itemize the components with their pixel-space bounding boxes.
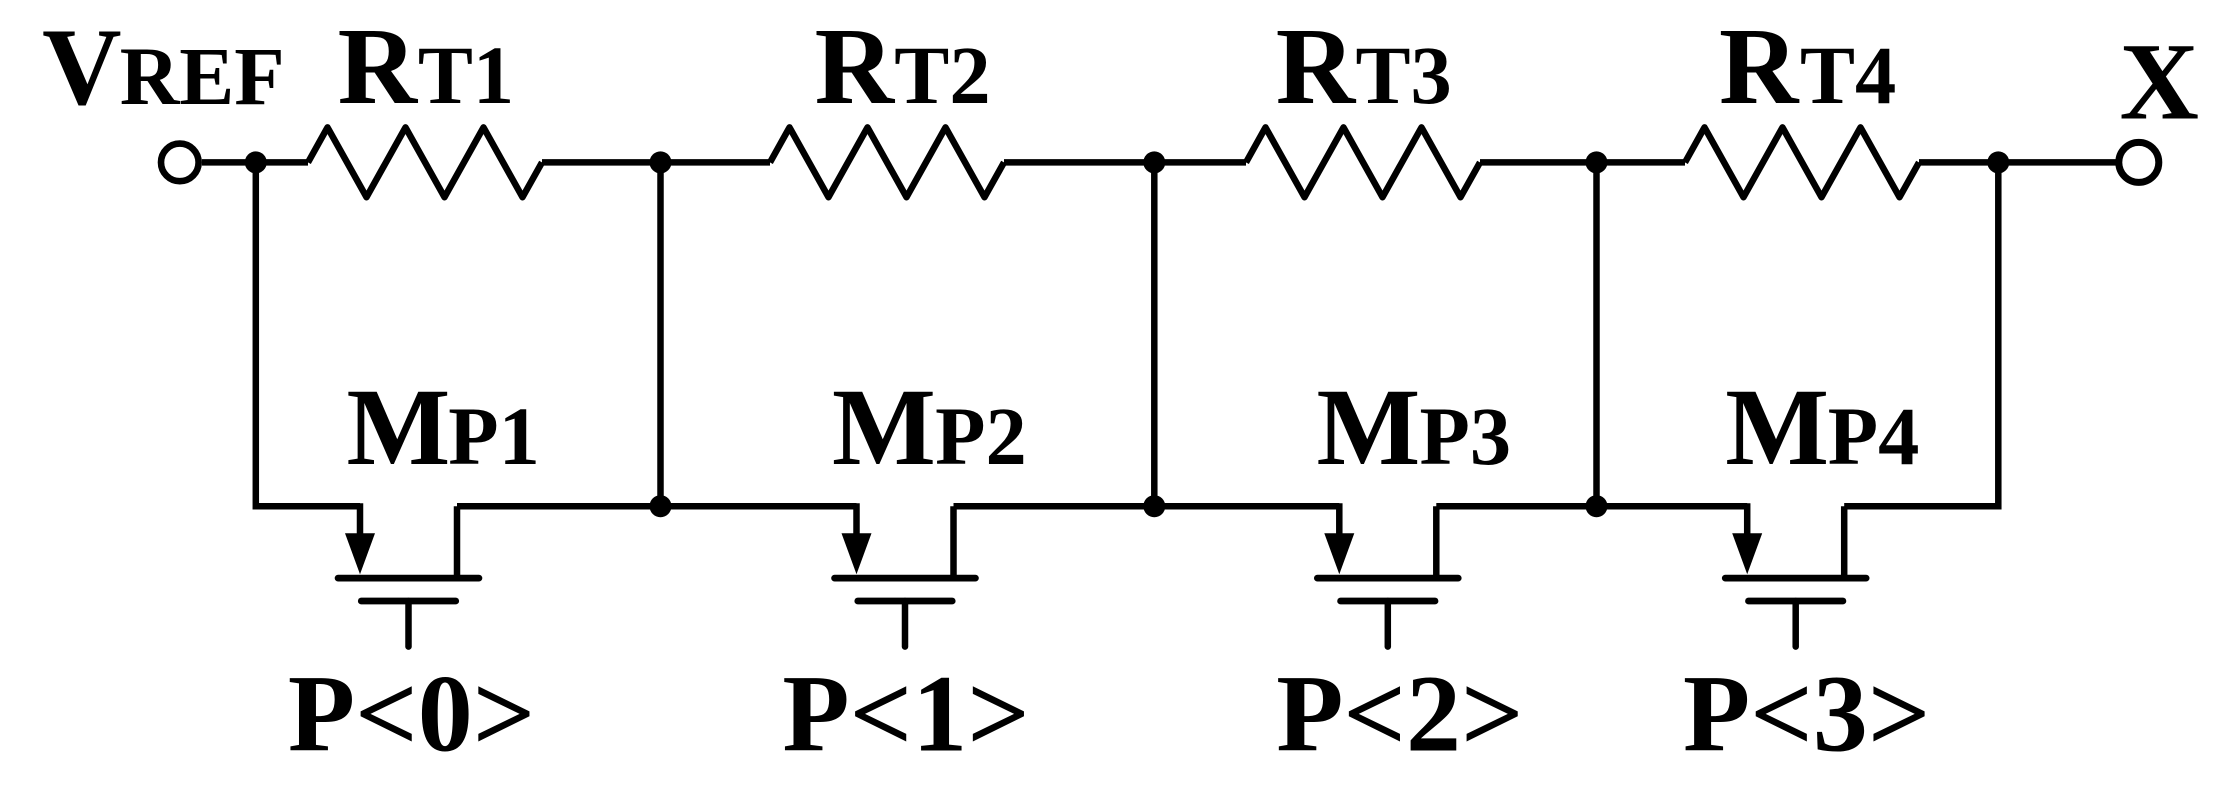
wire bus MP3 drain to MP4 source — [1436, 503, 1747, 510]
transistor MP4 — [1725, 503, 1866, 646]
wire node 0 down and bus to MP1 source lead — [256, 162, 360, 506]
resistor RT1 — [308, 127, 542, 197]
wire top rail RT3 to RT4 — [1480, 159, 1685, 166]
svg-text:P<2>: P<2> — [1276, 652, 1524, 774]
resistor RT3 — [1246, 127, 1480, 197]
label RT4 — [1719, 5, 1896, 127]
svg-text:R: R — [1276, 5, 1357, 127]
terminal X — [2119, 142, 2159, 182]
svg-text:R: R — [1719, 5, 1800, 127]
label RT3 — [1276, 5, 1452, 127]
transistor MP2 — [835, 503, 976, 646]
svg-text:P1: P1 — [448, 390, 540, 482]
svg-text:P4: P4 — [1828, 390, 1920, 482]
svg-text:P<0>: P<0> — [288, 652, 536, 774]
label VREF — [42, 6, 285, 128]
terminal VREF — [161, 144, 199, 182]
junction node 3 (bus) — [1586, 495, 1608, 517]
svg-text:T3: T3 — [1356, 29, 1452, 121]
label RT1 — [338, 5, 515, 127]
wire vertical node 3 to bus — [1593, 162, 1600, 506]
svg-text:T1: T1 — [418, 29, 514, 121]
wire top rail RT2 to RT3 — [1004, 159, 1246, 166]
svg-text:T2: T2 — [894, 29, 990, 121]
label P&lt;0&gt; — [288, 652, 536, 774]
junction node 1 (top) — [650, 151, 672, 173]
svg-text:T4: T4 — [1800, 29, 1896, 121]
svg-text:R: R — [815, 5, 896, 127]
junction node 0 (VREF) — [245, 151, 267, 173]
junction node 3 (top) — [1586, 151, 1608, 173]
wire vertical node 2 to bus — [1151, 162, 1158, 506]
svg-text:P2: P2 — [935, 390, 1027, 482]
svg-text:M: M — [1725, 366, 1829, 488]
label X — [2120, 21, 2199, 143]
svg-text:P<3>: P<3> — [1683, 652, 1931, 774]
wire bus MP4 drain up to node 4 — [1844, 162, 1998, 506]
resistor RT4 — [1685, 127, 1919, 197]
junction node 2 (top) — [1143, 151, 1165, 173]
label MP1 — [347, 366, 540, 488]
label P&lt;2&gt; — [1276, 652, 1524, 774]
svg-text:REF: REF — [120, 30, 285, 122]
svg-text:P3: P3 — [1420, 390, 1512, 482]
label P&lt;3&gt; — [1683, 652, 1931, 774]
wire top rail RT1 to RT2 — [542, 159, 770, 166]
junction node 1 (bus) — [650, 495, 672, 517]
wire vertical node 1 to bus — [657, 162, 664, 506]
label RT2 — [815, 5, 991, 127]
wire top rail VREF to RT1 — [202, 159, 308, 166]
svg-text:V: V — [42, 6, 121, 128]
svg-text:P<1>: P<1> — [782, 652, 1030, 774]
resistor RT2 — [770, 127, 1004, 197]
label MP2 — [832, 366, 1027, 488]
svg-text:M: M — [1317, 366, 1421, 488]
transistor MP3 — [1317, 503, 1458, 646]
wire bus MP1 drain to MP2 source — [457, 503, 857, 510]
svg-text:M: M — [832, 366, 936, 488]
label MP3 — [1317, 366, 1512, 488]
label MP4 — [1725, 366, 1919, 488]
svg-text:R: R — [338, 5, 419, 127]
label P&lt;1&gt; — [782, 652, 1030, 774]
wire bus MP2 drain to MP3 source — [954, 503, 1340, 510]
svg-text:M: M — [347, 366, 451, 488]
junction node 4 (top) — [1987, 151, 2009, 173]
junction node 2 (bus) — [1143, 495, 1165, 517]
svg-text:X: X — [2120, 21, 2199, 143]
wire top rail RT4 to X — [1919, 159, 2119, 166]
transistor MP1 — [338, 503, 479, 646]
